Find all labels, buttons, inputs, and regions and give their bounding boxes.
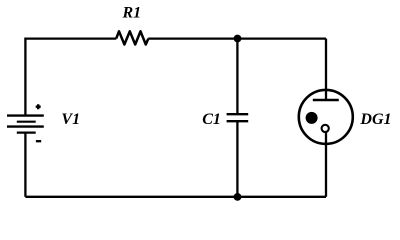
svg-text:DG1: DG1 <box>359 111 391 128</box>
battery V1 plate short <box>17 121 36 123</box>
svg-text:R1: R1 <box>122 5 142 22</box>
battery V1 plate short bottom <box>17 132 36 134</box>
wire bottom <box>25 196 326 198</box>
svg-text:V1: V1 <box>61 111 80 128</box>
minus sign <box>36 140 41 142</box>
resistor R1 <box>116 31 148 44</box>
wire C1 bottom stem <box>236 121 238 197</box>
junction top node <box>234 35 242 43</box>
capacitor C1 <box>227 114 249 121</box>
wire battery bottom stem to bottom-left corner <box>24 133 26 197</box>
svg-text:C1: C1 <box>202 111 221 128</box>
discharge tube DG1 envelope <box>299 90 353 144</box>
battery V1 plate long <box>7 125 44 127</box>
wire right branch top (corner to DG1 plate) <box>325 39 327 100</box>
plus sign <box>36 104 41 109</box>
DG1 cathode dot <box>306 112 318 124</box>
battery V1 plate long top <box>7 114 44 116</box>
wire DG1 bottom stem <box>325 130 327 197</box>
wire C1 top stem <box>236 39 238 114</box>
wire left loop (battery top to top-left corner to resistor) <box>25 39 116 116</box>
junction bottom node <box>234 193 242 201</box>
DG1 top plate electrode <box>313 99 339 101</box>
DG1 small electrode circle <box>322 125 329 132</box>
wire resistor to top-right corner <box>148 37 326 39</box>
